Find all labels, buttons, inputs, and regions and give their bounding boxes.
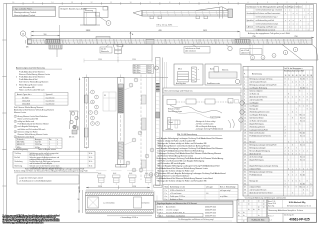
- svg-text:13: 13: [244, 114, 246, 116]
- detail balloon at rail left end: [20, 31, 28, 49]
- drive unit below rail: [49, 44, 62, 57]
- drop line from example box: [59, 25, 61, 39]
- svg-text:Ø6: Ø6: [26, 47, 28, 49]
- svg-text:12: 12: [91, 2, 93, 4]
- svg-text:Laufschiene m. Band: Laufschiene m. Band: [185, 48, 200, 50]
- svg-text:7: 7: [285, 147, 286, 149]
- svg-text:Schraub n.: Schraub n.: [17, 139, 25, 141]
- svg-text:1250: 1250: [132, 59, 136, 61]
- svg-text:40x3: 40x3: [145, 173, 148, 175]
- svg-text:± 10 mm kürzen: ± 10 mm kürzen: [170, 193, 182, 195]
- cable routing box: [163, 95, 244, 131]
- svg-text:ab: ab: [258, 215, 260, 217]
- svg-text:2: 2: [288, 102, 289, 104]
- svg-text:5: 5: [15, 136, 16, 138]
- svg-text:9: 9: [307, 78, 308, 80]
- svg-text:Ø8: Ø8: [104, 95, 106, 97]
- svg-text:2.195: 2.195: [98, 186, 102, 188]
- svg-text:2: 2: [288, 159, 289, 161]
- svg-text:Typennkl.: Typennkl.: [46, 94, 54, 96]
- label box right drawing: [240, 49, 262, 55]
- svg-text:2: 2: [285, 81, 286, 83]
- svg-text:5: 5: [285, 180, 286, 182]
- svg-text:Bem. n. Wunschlänge: Bem. n. Wunschlänge: [220, 186, 236, 188]
- svg-text:60: 60: [303, 75, 305, 77]
- svg-text:Ø8 x2: Ø8 x2: [178, 69, 182, 71]
- disclaimer dense text block: [2, 213, 60, 224]
- svg-text:40-07: 40-07: [148, 72, 152, 74]
- svg-text:1: 1: [303, 192, 304, 194]
- svg-text:1: 1: [288, 84, 289, 86]
- svg-text:40-07: 40-07: [148, 68, 152, 70]
- svg-text:max 35x2,5²: max 35x2,5²: [46, 103, 56, 106]
- svg-text:Grundmodul: Grundmodul: [247, 13, 256, 15]
- svg-text:Name Wg: Name Wg: [268, 205, 274, 207]
- svg-text:Bei Linienmontage wird Einlauf: Bei Linienmontage wird Einlauf neu: [165, 90, 193, 93]
- svg-text:2: 2: [288, 186, 289, 188]
- svg-text:40661-FP-025: 40661-FP-025: [289, 217, 310, 221]
- quantity table: [163, 185, 238, 201]
- svg-text:ab: ab: [238, 215, 240, 217]
- dim line above posts: [84, 59, 152, 63]
- svg-text:max 25x1,5²: max 25x1,5²: [46, 96, 56, 99]
- svg-text:6: 6: [285, 52, 286, 54]
- svg-text:ab: ab: [243, 221, 245, 223]
- svg-text:22: 22: [244, 141, 246, 143]
- svg-text:ab: ab: [248, 201, 250, 203]
- svg-text:Umlenkung: Umlenkung: [15, 161, 23, 163]
- svg-text:ab Lager mögl.: ab Lager mögl.: [220, 190, 231, 192]
- svg-text:Ø5 mm: Ø5 mm: [69, 137, 75, 139]
- svg-text:Spindel m.: Spindel m.: [247, 20, 255, 22]
- svg-text:4: 4: [285, 132, 286, 134]
- svg-text:1: 1: [57, 142, 58, 144]
- svg-text:2 x: 2 x: [165, 190, 167, 192]
- svg-text:7: 7: [307, 93, 308, 95]
- balloon chain near post 1: [89, 90, 100, 125]
- svg-text:und Schrauben M6: und Schrauben M6: [19, 86, 35, 89]
- svg-text:Mo. näh: Mo. näh: [300, 135, 305, 137]
- svg-text:4: 4: [285, 96, 286, 98]
- svg-text:ab: ab: [263, 201, 265, 203]
- guide post inside cable box: [166, 118, 178, 130]
- components on rail mid: [96, 37, 154, 47]
- svg-text:2: 2: [288, 78, 289, 80]
- svg-text:Sägelänge Angaben und Hinweise: Sägelänge Angaben und Hinweise über 4.50…: [157, 202, 197, 205]
- svg-text:4 x: 4 x: [165, 196, 167, 198]
- svg-text:1: 1: [15, 116, 16, 118]
- detail box belt clamp: [205, 64, 241, 85]
- instructions text block: [157, 137, 226, 183]
- svg-text:9: 9: [285, 186, 286, 188]
- svg-text:Seil Klemme Winkel Anzug Momen: Seil Klemme Winkel Anzug Moment: [14, 106, 44, 109]
- balloons right drawing: [251, 44, 298, 59]
- svg-text:bis 1500: bis 1500: [22, 97, 28, 99]
- svg-text:25: 25: [244, 150, 246, 152]
- svg-text:1: 1: [303, 141, 304, 143]
- svg-text:37: 37: [244, 186, 246, 188]
- narrow post with fittings: [142, 95, 147, 168]
- svg-text:32: 32: [244, 171, 246, 173]
- svg-text:40661-FP-011: 40661-FP-011: [205, 215, 216, 217]
- svg-text:M6 / M8x1: M6 / M8x1: [17, 142, 25, 144]
- svg-text:Mo. näh: Mo. näh: [300, 87, 305, 89]
- svg-text:Bl 4.236 m: Bl 4.236 m: [134, 72, 142, 74]
- svg-text:40: 40: [296, 75, 298, 77]
- detail box end stop: [174, 64, 203, 85]
- svg-text:7: 7: [285, 183, 286, 185]
- svg-text:2: 2: [307, 150, 308, 152]
- department cell highlighted: [248, 217, 270, 222]
- drawing number cell: [268, 213, 310, 222]
- svg-text:Benennung: Abdeckband komplett: Benennung: Abdeckband komplett m. Schien…: [269, 209, 304, 212]
- svg-text:S.Mö Abdeck Mfg: S.Mö Abdeck Mfg: [289, 201, 306, 204]
- svg-text:Seil Klemme Winkel Anzug Momen: Seil Klemme Winkel Anzug Moment: [19, 81, 49, 84]
- balloon circles cluster mid: [124, 78, 154, 172]
- svg-text:5: 5: [228, 2, 229, 4]
- note lines under tables: [14, 167, 98, 173]
- svg-text:1: 1: [306, 2, 307, 4]
- svg-text:Kanal: Kanal: [169, 122, 174, 124]
- svg-text:Mo. näh: Mo. näh: [300, 117, 305, 119]
- svg-text:Anweis Typen bis x: Anweis Typen bis x: [17, 93, 32, 96]
- svg-text:2: 2: [285, 126, 286, 128]
- svg-text:31: 31: [244, 168, 246, 170]
- svg-text:5: 5: [288, 96, 289, 98]
- vertical post 2 front view: [116, 75, 127, 169]
- mount bracket below rail with centerline: [113, 44, 123, 62]
- svg-text:10: 10: [244, 105, 246, 107]
- svg-text:-10: -10: [206, 193, 208, 195]
- svg-text:1: 1: [108, 23, 109, 25]
- caution note box bottom-left: [17, 175, 79, 184]
- vertical post 3 side view dark: [154, 58, 163, 188]
- svg-text:Anzug Moment Leiste Band Zubeh: Anzug Moment Leiste Band Zubehoer: [18, 115, 49, 118]
- dimension line right segment: [240, 36, 314, 38]
- dimension line over main rail: [31, 30, 240, 40]
- balloon to cabinet: [99, 17, 111, 26]
- svg-text:5: 5: [307, 141, 308, 143]
- svg-text:50: 50: [299, 75, 301, 77]
- svg-text:ab: ab: [263, 206, 265, 208]
- svg-text:2: 2: [49, 144, 50, 146]
- svg-text:2: 2: [288, 153, 289, 155]
- vertical dimension 2665: [77, 78, 80, 194]
- footer note center: [168, 218, 232, 221]
- svg-text:4.506 m: 4.506 m: [157, 206, 164, 208]
- notes paragraph 2: [14, 106, 54, 114]
- svg-text:5: 5: [288, 141, 289, 143]
- svg-text:Beispiel f. Anordnung v. Antri: Beispiel f. Anordnung v. Antrieb: [61, 7, 87, 10]
- svg-text:40661-FP-006: 40661-FP-006: [205, 212, 216, 214]
- svg-text:Profil Abdeckband Seil Klemme: Profil Abdeckband Seil Klemme: [19, 70, 45, 73]
- ceiling reference line: [82, 77, 168, 79]
- svg-text:Winkel Anzug Moment Leiste: Winkel Anzug Moment Leiste: [19, 83, 43, 86]
- svg-text:Moment Leiste: Moment Leiste: [14, 111, 26, 114]
- svg-text:Klemme fix: Klemme fix: [101, 51, 109, 53]
- svg-text:19: 19: [244, 132, 246, 134]
- short dim line left: [31, 34, 60, 36]
- svg-text:≈ Gesamtlänge 4.506 m: ≈ Gesamtlänge 4.506 m: [120, 216, 139, 219]
- svg-text:4: 4: [307, 186, 308, 188]
- svg-text:10: 10: [130, 2, 132, 4]
- svg-text:26: 26: [244, 153, 246, 155]
- extension lines from rail: [141, 75, 152, 191]
- svg-text:ab: ab: [263, 203, 265, 205]
- svg-text:4.398 m: 4.398 m: [157, 209, 164, 211]
- svg-text:15: 15: [32, 2, 34, 4]
- svg-text:4: 4: [247, 2, 248, 4]
- svg-text:2: 2: [16, 77, 17, 79]
- svg-text:Anweisungszusammenfassung: Anweisungszusammenfassung: [16, 66, 45, 69]
- svg-text:98: 98: [78, 199, 80, 201]
- svg-text:Geraden PLATTLERL.M: Geraden PLATTLERL.M: [166, 211, 185, 214]
- svg-text:Bl 4.236 m: Bl 4.236 m: [134, 65, 142, 67]
- svg-text:4: 4: [307, 84, 308, 86]
- svg-text:9: 9: [288, 147, 289, 149]
- svg-text:2: 2: [285, 150, 286, 152]
- svg-text:796: 796: [252, 36, 255, 38]
- svg-text:mit Halter und Schrauben M6 na: mit Halter und Schrauben M6 nach: [18, 128, 46, 131]
- svg-text:Klemme Winkel Anzug Moment Lei: Klemme Winkel Anzug Moment Leiste: [19, 73, 50, 76]
- svg-text:2 x: 2 x: [165, 193, 167, 195]
- svg-text:9: 9: [303, 171, 304, 173]
- svg-text:29: 29: [244, 162, 246, 164]
- svg-text:Teilen n. Angabe setzen: Teilen n. Angabe setzen: [38, 148, 56, 151]
- svg-text:12: 12: [244, 111, 246, 113]
- svg-text:9: 9: [288, 174, 289, 176]
- right end perspective of rail: [250, 44, 318, 60]
- clamp detail stacks: [96, 171, 154, 185]
- svg-text:1: 1: [49, 142, 50, 144]
- Seilverlaengerung table: [13, 148, 95, 169]
- svg-text:9: 9: [285, 78, 286, 80]
- svg-text:9: 9: [307, 108, 308, 110]
- svg-text:ab: ab: [243, 215, 245, 217]
- svg-text:23: 23: [244, 144, 246, 146]
- svg-text:Band: Band: [210, 69, 214, 71]
- svg-text:17: 17: [244, 126, 246, 128]
- svg-text:Montage der Schiene erfolgt mi: Montage der Schiene erfolgt mit Halter u…: [158, 179, 207, 182]
- svg-text:Fg Maschb. Stan: Fg Maschb. Stan: [252, 219, 265, 222]
- svg-text:ab: ab: [258, 209, 260, 211]
- balloon on rail right-mid: [226, 44, 232, 50]
- svg-text:Bl 4.236 m: Bl 4.236 m: [134, 70, 142, 72]
- svg-text:Mo. näh: Mo. näh: [300, 78, 305, 80]
- vertical dimension stack bottom-left: [78, 186, 83, 213]
- balloons near clamp stacks: [149, 173, 158, 177]
- svg-text:ab: ab: [248, 209, 250, 211]
- svg-text:Mo. näh: Mo. näh: [300, 159, 305, 161]
- svg-text:4: 4: [285, 135, 286, 137]
- svg-text:24: 24: [244, 147, 246, 149]
- svg-text:28: 28: [244, 159, 246, 161]
- svg-text:14: 14: [51, 2, 53, 4]
- label box 1 below rail: [100, 44, 112, 53]
- svg-text:Mo. näh: Mo. näh: [300, 156, 305, 158]
- side view rail with wedge and feet: [133, 7, 233, 19]
- svg-text:Mo. näh: Mo. näh: [300, 132, 305, 134]
- mini spec table above posts: [133, 65, 159, 75]
- svg-text:Profil Abdeckband Seil Klemme: Profil Abdeckband Seil Klemme Winkel: [18, 123, 50, 126]
- svg-text:11: 11: [110, 2, 112, 4]
- svg-text:ab: ab: [238, 201, 240, 203]
- svg-text:ab: ab: [258, 201, 260, 203]
- svg-text:15: 15: [244, 120, 246, 122]
- svg-text:6: 6: [208, 2, 209, 4]
- svg-text:9-10 Nm: 9-10 Nm: [35, 142, 42, 144]
- svg-text:33: 33: [244, 174, 246, 176]
- svg-text:ab: ab: [243, 212, 245, 214]
- svg-text:3: 3: [267, 2, 268, 4]
- drop line mid rail: [151, 44, 153, 60]
- remark header: [177, 134, 222, 136]
- svg-text:34: 34: [244, 177, 246, 179]
- svg-text:Mo. näh: Mo. näh: [300, 144, 305, 146]
- svg-text:18: 18: [244, 129, 246, 131]
- scale note M 1:4: [156, 25, 178, 27]
- svg-text:8: 8: [169, 2, 170, 4]
- saw-length table: [156, 201, 234, 218]
- svg-text:40x3: 40x3: [113, 173, 116, 175]
- svg-text:7: 7: [303, 96, 304, 98]
- svg-text:40x3: 40x3: [98, 173, 101, 175]
- svg-text:4: 4: [288, 150, 289, 152]
- svg-text:Mo. näh: Mo. näh: [300, 174, 305, 176]
- svg-text:≈ M = 1:4 ca. 30%: ≈ M = 1:4 ca. 30%: [156, 25, 172, 27]
- svg-text:30: 30: [244, 165, 246, 167]
- svg-text:39: 39: [244, 192, 246, 194]
- svg-text:1: 1: [307, 168, 308, 170]
- svg-text:8: 8: [307, 96, 308, 98]
- svg-text:Aussenbahn: Aussenbahn: [166, 205, 175, 208]
- svg-text:zu je Bahn: zu je Bahn: [220, 196, 228, 198]
- line-assembly note bar: [163, 88, 241, 93]
- svg-text:1: 1: [303, 150, 304, 152]
- svg-text:2: 2: [303, 84, 304, 86]
- svg-text:20: 20: [244, 135, 246, 137]
- example arrangement box: [59, 7, 108, 18]
- svg-text:40661-FP-005: 40661-FP-005: [205, 209, 216, 211]
- notes column header: [16, 66, 62, 69]
- vertical post 4 side view: [163, 58, 167, 186]
- svg-text:Schiene erfolgt mit Halter und: Schiene erfolgt mit Halter und Schrauben…: [14, 170, 88, 173]
- svg-text:Durchführung legen: Durchführung legen: [168, 111, 182, 113]
- legend list in cable box: [195, 119, 234, 130]
- section arrow above rail: [130, 32, 134, 39]
- svg-text:Schiene erfolgt mit Halter: Schiene erfolgt mit Halter: [18, 130, 39, 133]
- svg-text:11: 11: [244, 108, 246, 110]
- svg-text:5: 5: [16, 84, 17, 86]
- svg-text:abdecken Sie: abdecken Sie: [241, 53, 251, 55]
- svg-text:Bl 4.236 m: Bl 4.236 m: [134, 68, 142, 70]
- bottom dimension lines: [86, 186, 150, 190]
- svg-text:7: 7: [288, 114, 289, 116]
- svg-text:9: 9: [307, 99, 308, 101]
- svg-text:7: 7: [285, 129, 286, 131]
- svg-text:8: 8: [285, 84, 286, 86]
- svg-text:16: 16: [12, 2, 14, 4]
- svg-text:erfolgt mit Halter und: erfolgt mit Halter und: [18, 120, 35, 123]
- svg-text:20: 20: [288, 75, 290, 77]
- svg-text:7: 7: [288, 180, 289, 182]
- svg-text:5: 5: [285, 153, 286, 155]
- svg-text:8: 8: [288, 168, 289, 170]
- svg-text:ab: ab: [238, 212, 240, 214]
- svg-text:35: 35: [244, 180, 246, 182]
- revision grid: [237, 200, 267, 223]
- svg-text:Einlauf m. Kabel: Einlauf m. Kabel: [168, 109, 180, 111]
- svg-text:am Lager: am Lager: [206, 186, 213, 188]
- svg-text:ab: ab: [258, 206, 260, 208]
- svg-text:2.195: 2.195: [132, 186, 136, 188]
- svg-text:± 10 mm Längen: ± 10 mm Längen: [166, 209, 179, 211]
- svg-text:Seil Klemme Winkel: Seil Klemme Winkel: [250, 117, 264, 119]
- svg-text:2 x: 2 x: [165, 199, 167, 201]
- svg-text:Klemmung: Klemmung: [15, 165, 23, 167]
- svg-text:5: 5: [307, 87, 308, 89]
- svg-text:Seilverlängerung:: Seilverlängerung:: [14, 148, 29, 151]
- svg-text:40x3: 40x3: [129, 173, 132, 175]
- svg-text:Profile pass. 2.195 m: Profile pass. 2.195 m: [170, 196, 186, 198]
- label box 2 below rail: [184, 44, 210, 53]
- svg-text:Profil Abdeckband Seil Klemme: Profil Abdeckband Seil Klemme: [19, 76, 45, 79]
- svg-text:38: 38: [244, 189, 246, 191]
- svg-text:ab: ab: [253, 209, 255, 211]
- svg-text:Benennung: Benennung: [252, 74, 262, 76]
- svg-text:Kombination: für die Montagear: Kombination: für die Montagearbeiten gel…: [247, 5, 283, 8]
- svg-text:Steuerung: Steuerung: [85, 9, 93, 12]
- svg-text:nach Angabe Befestigung: nach Angabe Befestigung: [18, 125, 38, 128]
- svg-text:80: 80: [311, 75, 313, 77]
- svg-text:14: 14: [244, 117, 246, 119]
- right dim ticks of profile: [154, 191, 157, 213]
- svg-text:21: 21: [244, 138, 246, 140]
- svg-text:-Montageanleitung Tuebek: -Montageanleitung Tuebek: [14, 11, 36, 14]
- svg-text:3: 3: [15, 126, 16, 128]
- svg-text:7: 7: [189, 2, 190, 4]
- svg-text:7: 7: [303, 81, 304, 83]
- svg-text:Abdeckband Seil Klemme Winkel: Abdeckband Seil Klemme Winkel Anzug Mome…: [14, 109, 54, 112]
- svg-text:M6 nach: M6 nach: [250, 141, 256, 143]
- svg-text:40-07: 40-07: [148, 65, 152, 67]
- svg-text:7: 7: [295, 49, 296, 51]
- svg-text:8: 8: [307, 180, 308, 182]
- hook detail with pulleys: [69, 111, 78, 139]
- svg-text:30: 30: [292, 75, 294, 77]
- bracket detail mid: [103, 92, 116, 111]
- numbered instruction list: [14, 115, 49, 138]
- svg-text:590: 590: [44, 34, 47, 36]
- wire cross-section table: [15, 93, 68, 106]
- svg-text:22-25 Nm: 22-25 Nm: [35, 144, 43, 146]
- svg-text:Halter und Schrauben M6 nach: Halter und Schrauben M6 nach: [19, 89, 45, 92]
- svg-text:1: 1: [57, 144, 58, 146]
- svg-text:4: 4: [15, 131, 16, 133]
- svg-text:Mo. näh: Mo. näh: [300, 183, 305, 185]
- svg-text:max 25x2,5²: max 25x2,5²: [46, 99, 56, 102]
- svg-text:13: 13: [71, 2, 73, 4]
- svg-text:2: 2: [15, 121, 16, 123]
- svg-text:-Legen der Dichtungen zuletzt: -Legen der Dichtungen zuletzt: [19, 176, 43, 179]
- svg-text:16: 16: [244, 123, 246, 125]
- top-right option table: [246, 5, 314, 32]
- svg-text:Achtung: die angegebenen Teile: Achtung: die angegebenen Teile gelten je…: [248, 32, 290, 35]
- svg-text:40-07: 40-07: [148, 70, 152, 72]
- svg-text:Mo. näh: Mo. näh: [300, 114, 305, 116]
- svg-text:ab: ab: [238, 203, 240, 205]
- svg-text:250: 250: [294, 36, 297, 38]
